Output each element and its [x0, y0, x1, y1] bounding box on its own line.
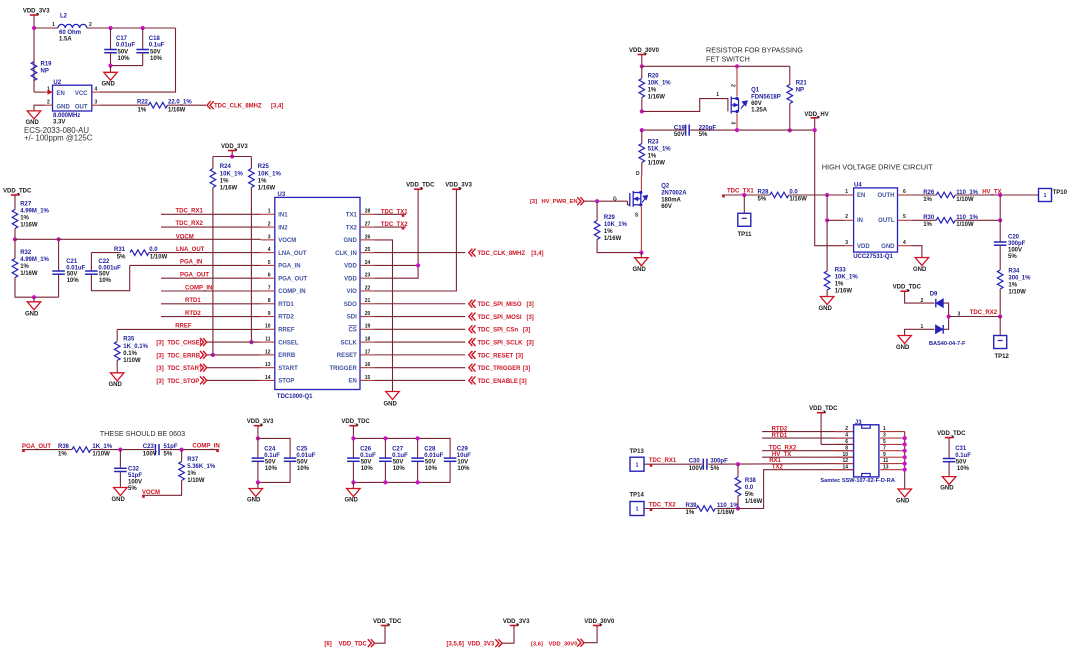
svg-text:VDD_30V0: VDD_30V0 [629, 48, 660, 54]
svg-text:1: 1 [1043, 193, 1046, 199]
nodes bypass TDC [351, 436, 355, 440]
svg-text:5%: 5% [758, 197, 767, 203]
svg-text:14: 14 [265, 375, 271, 381]
svg-text:VDD_3V3: VDD_3V3 [468, 642, 495, 648]
pin 11 CHSEL U3 [261, 341, 275, 343]
svg-text:LNA_OUT: LNA_OUT [278, 251, 307, 257]
svg-text:10%: 10% [99, 278, 112, 284]
resistor R32 [14, 239, 16, 258]
svg-text:G: G [613, 196, 617, 202]
connector J3 body Samtec [854, 425, 879, 477]
wire cap bottoms [111, 65, 143, 67]
offpage TDC_SPI_MOSI [374, 316, 465, 318]
power VDD_3V3 (U3 VIO) [452, 188, 460, 190]
node IN tie [825, 218, 829, 222]
wire gate of Q1 [642, 99, 728, 112]
svg-text:R38: R38 [745, 478, 757, 484]
svg-text:10: 10 [265, 324, 271, 330]
wire C19 row [642, 129, 685, 131]
power VDD_TDC (C31) [945, 437, 953, 439]
svg-text:OUTL: OUTL [878, 218, 895, 224]
node C21 top [57, 237, 61, 241]
pin 14 J3 [835, 469, 854, 471]
svg-text:VOCM: VOCM [176, 234, 194, 240]
node junction C18 top [141, 26, 145, 30]
capacitor C18 [142, 28, 144, 50]
svg-text:17: 17 [365, 349, 371, 355]
pin 2 IN U4 [845, 219, 854, 221]
offpage TDC_SPI_CSn [374, 328, 465, 330]
pin 17 RESET U3 [360, 354, 374, 356]
svg-text:RESET: RESET [337, 353, 357, 359]
pin 9 J3 [880, 456, 905, 458]
resistor R23 [641, 130, 643, 143]
pin 4 LNA_OUT U3 [261, 252, 275, 254]
resistor R20 [641, 66, 643, 78]
pin 8 J3 [762, 450, 854, 452]
pin 1 EN U4 [845, 194, 854, 196]
wire R31 to U3 pin4 [149, 252, 261, 254]
offpage connector TDC_CLK_8MHZ (oscillator) [207, 101, 214, 109]
svg-text:UCC27531-Q1: UCC27531-Q1 [853, 254, 893, 260]
resistor R21 [789, 66, 791, 84]
svg-text:8.000MHz: 8.000MHz [53, 113, 80, 119]
svg-text:VDD_3V3: VDD_3V3 [247, 419, 274, 425]
svg-text:110_1%: 110_1% [956, 190, 978, 196]
svg-text:HV_TX: HV_TX [772, 452, 791, 458]
svg-text:VDD_TDC: VDD_TDC [809, 406, 838, 412]
wire HV_PWR_EN to gate [584, 200, 628, 202]
ground R33 [820, 297, 834, 305]
pin 3 J3 [880, 437, 905, 439]
svg-text:C24: C24 [264, 446, 276, 452]
resistor R24 [212, 157, 214, 169]
svg-text:GND: GND [343, 238, 357, 244]
svg-text:R26: R26 [923, 190, 935, 196]
svg-text:18: 18 [365, 337, 371, 343]
offpage TDC_ENABLE [374, 379, 465, 381]
wire VDD_3V3 to pin22 VIO [374, 189, 456, 291]
capacitor C23 [154, 444, 156, 455]
svg-text:50V: 50V [674, 132, 685, 138]
capacitor C30 [702, 459, 704, 470]
svg-text:1%: 1% [58, 451, 67, 457]
svg-text:1/10W: 1/10W [956, 222, 974, 228]
svg-text:10%: 10% [425, 466, 438, 472]
svg-text:0.1uF: 0.1uF [360, 453, 376, 459]
svg-text:PGA_IN: PGA_IN [278, 264, 300, 270]
node R30 junction [998, 218, 1002, 222]
svg-text:VDD_TDC: VDD_TDC [406, 183, 435, 189]
svg-text:C30: C30 [689, 459, 701, 465]
svg-text:SDI: SDI [347, 315, 357, 321]
pin 4 GND U4 [898, 245, 912, 247]
chip U3 TDC1000-Q1 box [275, 197, 360, 389]
pin 2 stub U2 [45, 104, 53, 106]
svg-text:1%: 1% [187, 471, 196, 477]
svg-text:FDN5618P: FDN5618P [751, 95, 781, 101]
node Q2 source gnd [639, 251, 643, 255]
svg-text:10%: 10% [67, 278, 80, 284]
svg-text:1%: 1% [20, 216, 29, 222]
svg-text:1/16W: 1/16W [648, 95, 666, 101]
svg-text:GND: GND [896, 499, 910, 505]
svg-text:1%: 1% [686, 510, 695, 516]
svg-text:TRIGGER: TRIGGER [329, 366, 357, 372]
svg-text:VIO: VIO [346, 289, 357, 295]
svg-text:TP13: TP13 [630, 449, 645, 455]
wire TDC_RX1 net [161, 213, 261, 215]
svg-text:0.1uF: 0.1uF [264, 453, 280, 459]
pin 25 CLK_IN U3 [360, 252, 374, 254]
pin 8 RTD1 U3 [261, 303, 275, 305]
power VDD_3V3 (pullups) [228, 150, 236, 152]
ground under U2 pin2 [34, 105, 45, 111]
power VDD_TDC (divider) [11, 194, 19, 196]
node HV_TX junction [998, 193, 1002, 197]
svg-text:10K_1%: 10K_1% [220, 171, 244, 177]
svg-text:RREF: RREF [175, 324, 192, 330]
resistor R33 [824, 271, 830, 290]
svg-text:1/10W: 1/10W [150, 254, 168, 260]
resistor R22 [149, 102, 168, 108]
svg-text:TP12: TP12 [995, 354, 1010, 360]
resistor R37 [181, 450, 183, 462]
node pullup rail [230, 154, 234, 158]
ground Q2 [640, 253, 642, 258]
svg-text:ERRB: ERRB [278, 353, 296, 359]
svg-text:VDD_TDC: VDD_TDC [373, 619, 402, 625]
svg-text:10: 10 [842, 452, 848, 458]
svg-text:10%: 10% [361, 466, 374, 472]
svg-text:9: 9 [268, 311, 271, 317]
wire VDD_TDC to R27 [14, 195, 16, 210]
svg-text:5%: 5% [1008, 254, 1017, 260]
pin 20 SDI U3 [360, 316, 374, 318]
capacitor C22 [90, 253, 92, 271]
svg-text:10%: 10% [457, 466, 470, 472]
wire Q1 source [736, 66, 738, 96]
wire VDD_3V3 to L2 and R19 [33, 15, 35, 92]
svg-text:0.1uF: 0.1uF [392, 453, 408, 459]
svg-text:VCC: VCC [75, 91, 88, 97]
svg-text:PGA_IN: PGA_IN [180, 260, 202, 266]
pin 26 GND U3 [360, 239, 374, 241]
svg-text:3: 3 [883, 433, 886, 439]
wire RREF net [117, 328, 261, 330]
svg-text:START: START [278, 366, 298, 372]
svg-text:2: 2 [268, 221, 271, 227]
node EN/IN tie [825, 193, 829, 197]
svg-text:21: 21 [365, 298, 371, 304]
svg-text:1%: 1% [648, 154, 657, 160]
resistor R36 [72, 447, 91, 453]
pin 7 J3 [880, 450, 905, 452]
svg-text:8: 8 [845, 445, 848, 451]
svg-text:300pF: 300pF [1008, 241, 1026, 247]
pin 19 CS U3 [360, 328, 374, 330]
svg-text:C17: C17 [116, 36, 128, 42]
pin 18 SCLK U3 [360, 341, 374, 343]
svg-text:U3: U3 [278, 192, 286, 198]
wire VCC loop [100, 28, 176, 92]
node VOCM divider junction [13, 237, 17, 241]
svg-text:Q2: Q2 [661, 184, 670, 190]
svg-text:13: 13 [883, 464, 889, 470]
svg-text:R22: R22 [137, 99, 149, 105]
svg-text:THESE SHOULD BE 0603: THESE SHOULD BE 0603 [100, 429, 186, 438]
svg-text:10%: 10% [957, 466, 970, 472]
svg-text:[6]: [6] [324, 642, 331, 648]
wire CLK_IN net [374, 252, 465, 254]
svg-text:1: 1 [635, 507, 638, 513]
wire Q1 drain [736, 114, 738, 131]
pin 13 J3 [880, 469, 905, 471]
capacitor C27 [384, 438, 386, 458]
svg-text:R31: R31 [114, 247, 126, 253]
svg-text:1.25A: 1.25A [751, 108, 768, 114]
svg-text:C18: C18 [149, 36, 161, 42]
pin 21 SDO U3 [360, 303, 374, 305]
svg-text:1/16W: 1/16W [717, 510, 735, 516]
svg-text:R20: R20 [648, 74, 660, 80]
svg-text:100V: 100V [143, 451, 157, 457]
svg-text:60 Ohm: 60 Ohm [59, 30, 81, 36]
pin 3 VOCM U3 [261, 239, 275, 241]
resistor R19 [31, 62, 37, 81]
svg-text:1%: 1% [604, 229, 613, 235]
node gnd drop divider [32, 295, 36, 299]
svg-text:C21: C21 [66, 259, 78, 265]
svg-text:VDD: VDD [857, 244, 870, 250]
inductor L2 [58, 24, 87, 28]
svg-text:4: 4 [95, 86, 98, 92]
wire bypass 3V3 rail [258, 438, 290, 458]
svg-text:1/16W: 1/16W [168, 108, 186, 114]
svg-text:IN2: IN2 [278, 225, 288, 231]
resistor R38 [737, 464, 739, 477]
node R24 to ERRB [211, 353, 215, 357]
svg-text:[3]: [3] [530, 199, 537, 205]
wire RTD1 net [161, 303, 261, 305]
svg-text:2: 2 [89, 22, 92, 28]
power VDD_TDC (clamp) [900, 290, 908, 292]
resistor R28 [770, 192, 789, 198]
svg-text:TDC_STOP: TDC_STOP [167, 379, 199, 385]
svg-text:[3]: [3] [156, 341, 163, 347]
svg-text:2N7002A: 2N7002A [661, 191, 687, 197]
svg-text:27: 27 [365, 221, 371, 227]
svg-text:4: 4 [845, 433, 848, 439]
ground bypass TDC [352, 482, 354, 488]
wire C23 to COMP_IN [161, 449, 220, 451]
svg-text:TDC_CLK_8MHZ: TDC_CLK_8MHZ [478, 251, 526, 257]
svg-text:0.01uF: 0.01uF [424, 453, 443, 459]
wire VDD_TDC to pins 24/23 [374, 189, 418, 278]
svg-text:50V: 50V [297, 459, 308, 465]
svg-text:50V: 50V [393, 459, 404, 465]
svg-text:10K_1%: 10K_1% [258, 171, 282, 177]
pin 10 J3 [762, 456, 854, 458]
svg-text:R21: R21 [796, 81, 808, 87]
svg-text:C25: C25 [296, 446, 308, 452]
wire TX1 net [374, 213, 406, 215]
svg-text:TDC_CHSEL: TDC_CHSEL [167, 341, 203, 347]
svg-text:[3,6]: [3,6] [531, 641, 543, 647]
svg-text:LNA_OUT: LNA_OUT [176, 247, 205, 253]
svg-text:1/10W: 1/10W [123, 358, 141, 364]
svg-text:11: 11 [265, 337, 271, 343]
svg-text:100V: 100V [1008, 248, 1022, 254]
svg-text:STOP: STOP [278, 379, 294, 385]
node R25 to CHSEL [249, 340, 253, 344]
pin 5 PGA_IN U3 [261, 264, 275, 266]
capacitor C21 [58, 239, 60, 271]
wire clamp lower [905, 329, 935, 335]
ground C32 [114, 488, 128, 496]
svg-text:28: 28 [365, 209, 371, 215]
wire TDC_RX2 row [949, 316, 1001, 318]
svg-text:10%: 10% [297, 466, 310, 472]
capacitor C25 [284, 457, 297, 459]
capacitor C31 [948, 438, 950, 459]
svg-text:[3]: [3] [523, 328, 530, 334]
svg-text:GND: GND [57, 104, 71, 110]
ground bypass 3V3 [257, 482, 259, 488]
svg-text:GND: GND [112, 497, 126, 503]
svg-text:R37: R37 [187, 457, 199, 463]
svg-text:1.5A: 1.5A [59, 36, 72, 42]
svg-text:0.1uF: 0.1uF [149, 43, 165, 49]
svg-text:[3]: [3] [526, 341, 533, 347]
svg-text:C19: C19 [674, 125, 686, 131]
svg-text:1/10W: 1/10W [1008, 289, 1026, 295]
svg-text:GND: GND [940, 486, 954, 492]
node VDD_HV tap [813, 128, 817, 132]
svg-text:6: 6 [903, 189, 906, 195]
pin 1 stub U2 [45, 91, 53, 93]
svg-text:1/10W: 1/10W [92, 451, 110, 457]
svg-text:0.01uF: 0.01uF [116, 43, 135, 49]
svg-text:GND: GND [384, 401, 398, 407]
svg-text:VDD_3V3: VDD_3V3 [23, 8, 50, 14]
svg-text:1/16W: 1/16W [20, 271, 38, 277]
svg-text:D9: D9 [930, 292, 938, 298]
svg-text:RTD1: RTD1 [278, 302, 294, 308]
wire VOCM net to U3 pin3 [15, 238, 261, 240]
svg-text:TX1: TX1 [346, 213, 358, 219]
svg-text:NP: NP [796, 88, 804, 94]
pin 6 J3 [835, 443, 854, 445]
svg-text:13: 13 [265, 362, 271, 368]
svg-text:22: 22 [365, 285, 371, 291]
svg-text:HV_PWR_EN: HV_PWR_EN [542, 199, 578, 205]
svg-text:7: 7 [268, 285, 271, 291]
svg-text:GND: GND [819, 306, 833, 312]
capacitor C24 [257, 438, 259, 458]
svg-text:1K_0.1%: 1K_0.1% [123, 344, 148, 350]
chip U4 UCC27531-Q1 [854, 188, 898, 252]
svg-text:VDD: VDD [344, 264, 357, 270]
pin 10 RREF U3 [261, 328, 275, 330]
svg-text:9: 9 [883, 452, 886, 458]
capacitor C32 [119, 450, 121, 469]
offpage TDC_RESET [374, 354, 465, 356]
svg-text:GND: GND [345, 498, 359, 504]
svg-text:U2: U2 [53, 80, 61, 86]
svg-text:+/- 100ppm @125C: +/- 100ppm @125C [24, 134, 93, 143]
offpage TDC_TRIGGER [374, 367, 465, 369]
svg-text:C28: C28 [424, 446, 436, 452]
svg-text:5%: 5% [164, 451, 173, 457]
svg-text:C26: C26 [360, 446, 372, 452]
oscillator U2 box [53, 85, 92, 111]
node VDD pin24 [416, 263, 420, 267]
node clamp common [947, 314, 951, 318]
wire TDC_RX2 net [161, 226, 261, 228]
svg-text:10uF: 10uF [457, 453, 471, 459]
svg-text:[3,4]: [3,4] [531, 251, 543, 257]
node bypass 3V3 bottom [256, 480, 260, 484]
svg-text:CHSEL: CHSEL [278, 340, 299, 346]
svg-text:VOCM: VOCM [278, 238, 296, 244]
wire U3 GND pin26 [374, 240, 392, 392]
wire PGA_OUT net [161, 277, 261, 279]
wire RTD2 net [161, 316, 261, 318]
svg-text:VDD_TDC: VDD_TDC [3, 188, 32, 194]
node C19 row left [640, 128, 644, 132]
wire R28 to U4 EN [789, 194, 845, 196]
svg-text:2: 2 [845, 214, 848, 220]
svg-text:1: 1 [635, 462, 638, 468]
svg-text:TDC_RX2: TDC_RX2 [176, 221, 204, 227]
svg-text:J3: J3 [855, 420, 862, 426]
resistor R27 [12, 210, 18, 229]
capacitor C17 [110, 28, 112, 50]
node 30V rail left [640, 64, 644, 68]
pin 27 TX2 U3 [360, 226, 374, 228]
svg-text:19: 19 [365, 324, 371, 330]
wire clamp upper [905, 291, 935, 303]
wire J3 pin6 row [821, 443, 854, 445]
svg-text:24: 24 [365, 260, 371, 266]
svg-text:NP: NP [41, 68, 49, 74]
resistor R30 [911, 219, 936, 221]
pin 13 START U3 [261, 367, 275, 369]
svg-text:5%: 5% [117, 254, 126, 260]
svg-text:1/10W: 1/10W [187, 478, 205, 484]
node R38 top [736, 462, 740, 466]
ground C31 [942, 477, 956, 485]
svg-text:COMP_IN: COMP_IN [278, 289, 305, 295]
svg-text:VDD_30V0: VDD_30V0 [584, 619, 615, 625]
svg-text:0.0: 0.0 [745, 485, 754, 491]
svg-text:20: 20 [365, 311, 371, 317]
svg-text:TDC_START: TDC_START [167, 366, 203, 372]
svg-text:TDC_ERRB: TDC_ERRB [167, 353, 200, 359]
svg-text:5.36K_1%: 5.36K_1% [187, 464, 216, 470]
capacitor C28 [417, 438, 419, 458]
svg-text:RTD1: RTD1 [185, 298, 201, 304]
svg-text:5: 5 [883, 439, 886, 445]
svg-text:RTD2: RTD2 [772, 426, 788, 432]
svg-text:1/16W: 1/16W [220, 185, 238, 191]
wire R36 to C23 [91, 449, 154, 451]
wire R22 to offpage [168, 104, 207, 106]
pin 3 VDD U4 [845, 245, 854, 247]
svg-text:3: 3 [845, 240, 848, 246]
pin 5 J3 [880, 443, 905, 445]
